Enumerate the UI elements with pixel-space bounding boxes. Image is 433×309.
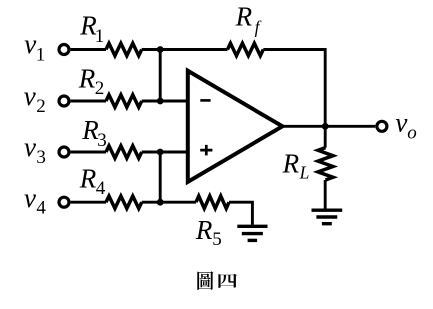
node D junction dot bbox=[157, 199, 164, 206]
svg-text:3: 3 bbox=[97, 130, 107, 151]
ground (R5) bbox=[237, 226, 267, 240]
terminal v4 bbox=[59, 197, 69, 207]
svg-text:5: 5 bbox=[212, 229, 222, 250]
op-amp U1 bbox=[188, 71, 283, 182]
svg-text:L: L bbox=[299, 163, 310, 183]
svg-text:4: 4 bbox=[96, 178, 106, 199]
wire: output node down to RL bbox=[324, 126, 327, 147]
wire: RL to ground bbox=[324, 180, 327, 209]
node A junction dot bbox=[157, 46, 164, 53]
svg-text:v: v bbox=[395, 108, 407, 138]
svg-text:R: R bbox=[195, 215, 213, 245]
svg-text:R: R bbox=[282, 149, 300, 179]
wire: node C to node D vertical bus bbox=[159, 152, 162, 202]
wire: v2 input lead bbox=[71, 100, 106, 103]
resistor R2 bbox=[106, 95, 142, 107]
op-amp plus sign bbox=[200, 145, 212, 156]
wire: v3 input lead bbox=[71, 151, 106, 154]
svg-text:R: R bbox=[79, 163, 97, 193]
svg-text:2: 2 bbox=[36, 96, 46, 117]
resistor R1 bbox=[106, 43, 142, 55]
wire: R3 to op-amp plus input bbox=[142, 151, 188, 154]
svg-text:4: 4 bbox=[36, 198, 46, 219]
wire: v4 input lead bbox=[71, 201, 106, 204]
svg-text:v: v bbox=[24, 183, 36, 213]
resistor RL bbox=[318, 148, 333, 180]
svg-text:1: 1 bbox=[36, 44, 46, 65]
terminal vo bbox=[377, 121, 387, 131]
resistor R3 bbox=[106, 146, 142, 158]
wire: R1 to node A and on to Rf bbox=[142, 48, 228, 51]
svg-text:v: v bbox=[24, 81, 36, 111]
wire: R2 to op-amp minus input bbox=[142, 100, 188, 103]
wire: node A to node B vertical bus bbox=[159, 50, 162, 102]
svg-text:v: v bbox=[24, 29, 36, 59]
svg-text:R: R bbox=[78, 64, 96, 94]
resistor Rf bbox=[228, 43, 264, 55]
ground (RL) bbox=[312, 210, 343, 224]
caption 圖 (Figure) bbox=[197, 271, 213, 290]
node B junction dot bbox=[157, 98, 164, 105]
wire: R5 to ground corner bbox=[229, 202, 252, 225]
terminal v2 bbox=[59, 96, 69, 106]
resistor R4 bbox=[106, 196, 142, 208]
svg-text:R: R bbox=[235, 2, 253, 32]
node C junction dot bbox=[157, 149, 164, 156]
terminal v3 bbox=[59, 147, 69, 157]
wire: v1 input lead bbox=[71, 48, 106, 51]
wire: op-amp output to terminal bbox=[282, 125, 375, 128]
svg-text:o: o bbox=[407, 123, 417, 144]
wire: R4 to node D and on to R5 bbox=[142, 201, 196, 204]
svg-text:2: 2 bbox=[95, 78, 105, 99]
svg-text:f: f bbox=[255, 17, 262, 37]
wire: Rf right lead and vertical down to output node bbox=[263, 50, 325, 127]
output node junction dot bbox=[322, 123, 329, 130]
terminal v1 bbox=[59, 45, 69, 55]
svg-text:3: 3 bbox=[36, 147, 46, 168]
svg-text:v: v bbox=[24, 132, 36, 162]
op-amp minus sign bbox=[200, 99, 210, 102]
svg-text:1: 1 bbox=[95, 26, 105, 47]
caption 四 (Four) bbox=[218, 274, 236, 288]
resistor R5 bbox=[196, 196, 229, 208]
